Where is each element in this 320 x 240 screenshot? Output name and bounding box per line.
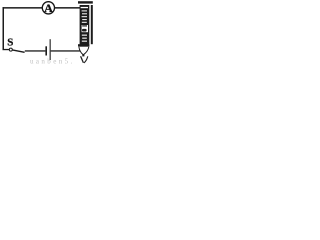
tube body dark column (80, 5, 90, 47)
wire switch to battery (25, 50, 46, 51)
tube bottom bar (78, 44, 89, 46)
battery long plate (50, 39, 51, 60)
svg-text:A: A (44, 1, 53, 15)
wire left vertical (3, 7, 5, 50)
ammeter A (42, 1, 54, 15)
battery short plate (45, 46, 47, 55)
tube graduation marks lower (82, 35, 87, 42)
tube graduation marks upper (82, 10, 87, 22)
tube right edge (91, 5, 93, 44)
svg-text:S: S (7, 36, 13, 48)
check mark below tip (81, 56, 84, 63)
svg-text:uanben5.: uanben5. (30, 58, 75, 66)
tube dark marks in window (82, 25, 87, 31)
wire top-left horizontal (3, 7, 43, 9)
tube graduation white slit top (81, 7, 88, 8)
tube light window middle (82, 25, 88, 32)
switch pivot (9, 48, 12, 51)
wire battery to tube (51, 50, 81, 51)
tube tip stem (82, 54, 84, 56)
switch blade (12, 50, 24, 52)
wire ammeter to tube (55, 7, 81, 9)
tube conical bottom outline (79, 47, 89, 55)
wire to switch pivot (3, 49, 10, 50)
tube top cap (78, 1, 93, 3)
